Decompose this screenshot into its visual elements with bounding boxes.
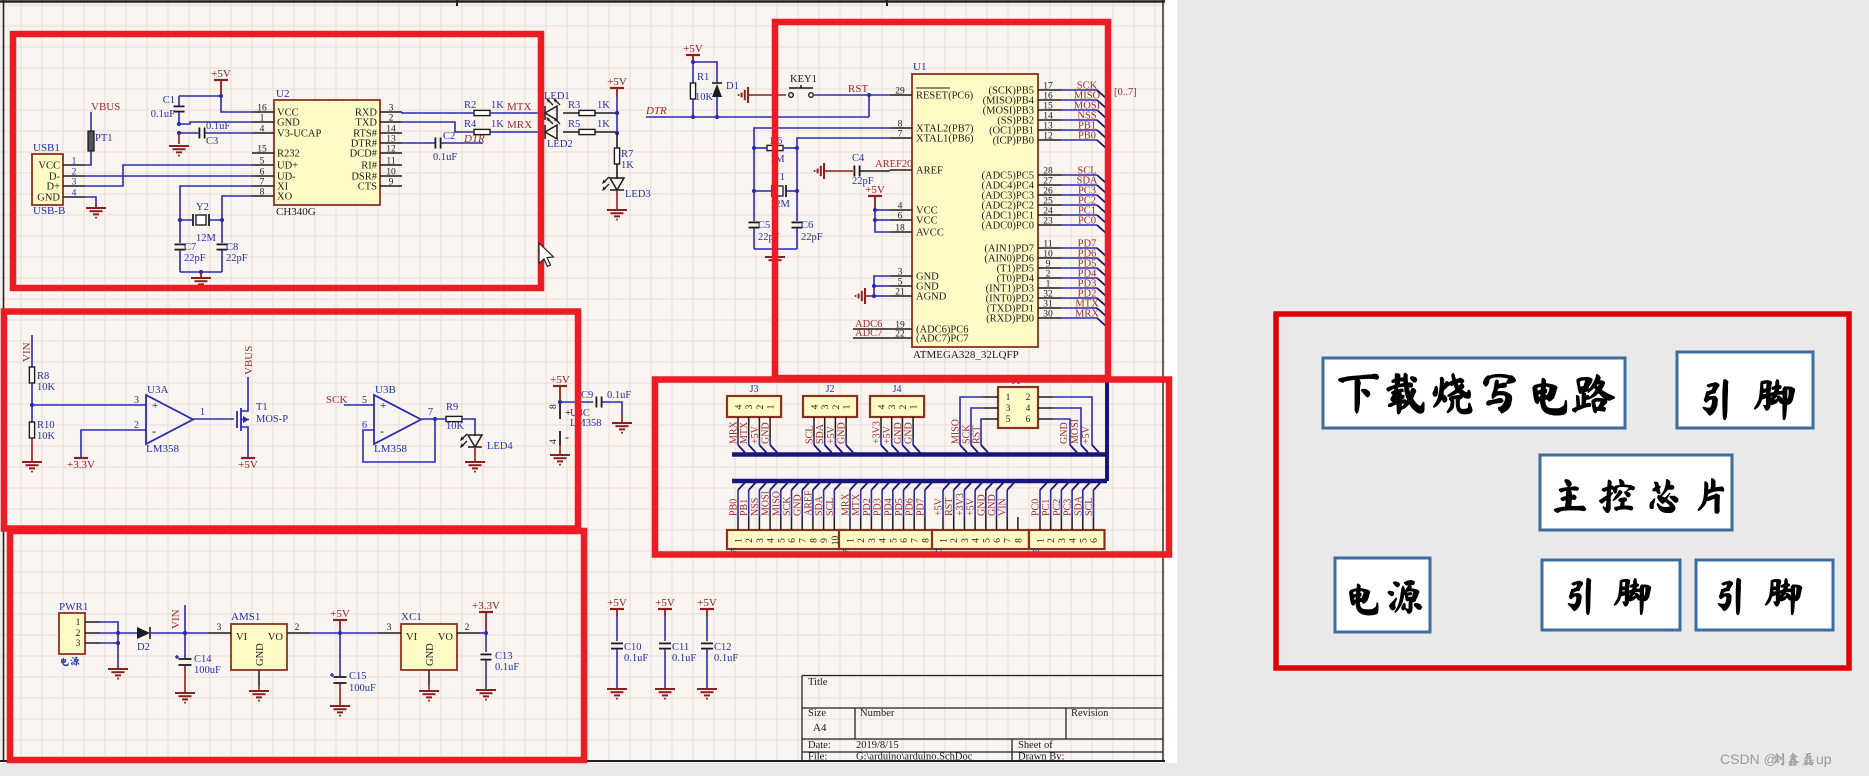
power +5V (C10) — [607, 597, 627, 616]
svg-text:-: - — [380, 424, 384, 438]
svg-text:0.1uF: 0.1uF — [495, 662, 519, 673]
svg-text:DCD#: DCD# — [350, 149, 378, 160]
net label PC2 (J8 pin 3) — [1052, 483, 1069, 518]
svg-text:7: 7 — [799, 538, 809, 543]
svg-text:C12: C12 — [714, 642, 732, 653]
svg-text:7: 7 — [260, 178, 265, 188]
svg-text:3: 3 — [756, 538, 766, 543]
svg-text:MRX: MRX — [1075, 309, 1099, 320]
svg-text:+5V: +5V — [607, 76, 627, 88]
power +5V (C12) — [697, 597, 717, 616]
svg-text:22pF: 22pF — [226, 253, 248, 264]
highlight box download/burn circuit — [13, 34, 541, 288]
svg-text:1K: 1K — [597, 119, 610, 130]
svg-text:C9: C9 — [581, 390, 593, 401]
svg-text:100uF: 100uF — [194, 665, 221, 676]
svg-text:29: 29 — [895, 87, 905, 97]
svg-text:0.1uF: 0.1uF — [607, 390, 631, 401]
wire DTR to RST node — [646, 93, 871, 119]
ground (C12) — [697, 689, 717, 700]
net label PD7 (J6 pin 8) — [915, 483, 932, 518]
net label SCK (U3B input) — [326, 394, 347, 406]
net label +5V (J4 pin 3) — [882, 425, 899, 452]
svg-text:A4: A4 — [813, 722, 827, 734]
svg-text:T1: T1 — [256, 402, 268, 413]
svg-text:0.1uF: 0.1uF — [714, 653, 738, 664]
ground (LED3) — [607, 190, 627, 221]
svg-text:VCC: VCC — [916, 216, 938, 227]
svg-text:+5V: +5V — [655, 597, 675, 609]
svg-text:3: 3 — [888, 404, 898, 409]
resistor R7 1K — [614, 148, 634, 179]
svg-text:6: 6 — [260, 168, 265, 178]
svg-text:1K: 1K — [491, 119, 504, 130]
svg-text:+5V: +5V — [550, 374, 570, 386]
svg-text:5: 5 — [1079, 538, 1089, 543]
net label +5V (J7 pin 4) — [966, 483, 983, 518]
power +3.3V (U3A -input) — [67, 430, 146, 471]
svg-text:RST: RST — [848, 83, 868, 95]
svg-text:14: 14 — [386, 125, 396, 135]
IC U2 CH340G — [252, 88, 402, 218]
svg-text:4: 4 — [72, 189, 77, 199]
net label VBUS (rotated) — [243, 346, 255, 375]
svg-text:5: 5 — [260, 157, 265, 167]
regulator XC1 — [378, 611, 480, 690]
svg-text:Revision: Revision — [1071, 708, 1109, 719]
svg-text:U1: U1 — [913, 61, 926, 73]
net label VIN (J7 pin 7) — [998, 483, 1015, 518]
ground (C14) — [175, 693, 195, 704]
header J8 — [1029, 517, 1105, 558]
wire U2 GND pin1 to C3/C1 node — [177, 122, 252, 135]
crystal Y2 12M — [193, 202, 217, 244]
net label PD5 (J6 pin 6) — [894, 483, 911, 518]
ground (C9) — [612, 423, 632, 434]
net label +5V (J1 right) — [1053, 397, 1099, 453]
net label PC0 (J8 pin 1) — [1031, 483, 1048, 518]
capacitor C7 22pF — [175, 242, 206, 272]
svg-text:2: 2 — [76, 629, 81, 639]
svg-text:MOS-P: MOS-P — [256, 414, 288, 425]
wire XC1 VO to +3.3V / C13 — [480, 631, 488, 652]
svg-text:+5V: +5V — [211, 68, 231, 80]
wire +5V to VCC/AVCC pins — [873, 208, 890, 232]
svg-text:22pF: 22pF — [184, 253, 206, 264]
ground (KEY1, rotated) — [738, 87, 786, 103]
legend box: pins label (top) — [1677, 352, 1813, 428]
svg-text:3: 3 — [898, 268, 903, 278]
svg-text:GND: GND — [37, 193, 60, 204]
svg-text:DTR: DTR — [463, 133, 485, 145]
capacitor C4 22pF — [852, 153, 890, 187]
svg-text:PWR1: PWR1 — [59, 601, 88, 613]
net label NSS (J5 pin 3) — [750, 483, 767, 518]
wire R2 to LED1 — [490, 112, 545, 114]
net label MRX — [507, 119, 532, 131]
svg-text:8: 8 — [921, 538, 931, 543]
net label MRX (J6 pin 1) — [841, 483, 858, 518]
net label RST (J7 pin 2) — [944, 483, 961, 518]
capacitor C13 0.1uF — [481, 651, 520, 689]
svg-text:CSDN @: CSDN @ — [1720, 751, 1778, 767]
svg-text:XTAL1(PB6): XTAL1(PB6) — [916, 134, 974, 145]
svg-text:1: 1 — [76, 618, 81, 628]
net label SCK (J5 pin 6) — [782, 483, 799, 518]
watermark CSDN @liuxinlei-up — [1720, 751, 1832, 767]
svg-text:5: 5 — [1006, 415, 1011, 425]
svg-text:7: 7 — [1004, 538, 1014, 543]
net label PB1 (J5 pin 2) — [739, 483, 756, 518]
svg-text:3: 3 — [217, 623, 222, 633]
ground (PWR1) — [108, 669, 128, 680]
crystal Y1 12M — [752, 172, 799, 221]
svg-text:VBUS: VBUS — [91, 101, 120, 113]
wire VIN to divider — [31, 335, 33, 367]
net label +3V3 (J7 pin 3) — [955, 483, 972, 518]
svg-text:4: 4 — [878, 404, 888, 409]
svg-text:2: 2 — [899, 404, 909, 409]
svg-text:1: 1 — [767, 404, 777, 409]
svg-text:XC1: XC1 — [401, 611, 422, 623]
svg-text:(ADC7)PC7: (ADC7)PC7 — [916, 334, 969, 345]
IC U1 ATMEGA328_32LQFP — [890, 61, 1038, 361]
svg-text:ATMEGA328_32LQFP: ATMEGA328_32LQFP — [913, 349, 1019, 361]
resistor R6 1M — [752, 136, 799, 191]
svg-text:16: 16 — [257, 104, 267, 114]
resistor R9 10K — [421, 402, 475, 436]
svg-text:2: 2 — [832, 404, 842, 409]
svg-text:1: 1 — [735, 538, 745, 543]
net label +3V3 (J4 pin 4) — [872, 421, 889, 452]
svg-text:2: 2 — [1047, 538, 1057, 543]
ground (U3C pin4) — [550, 455, 570, 466]
resistor R3 1K — [563, 100, 617, 116]
ground (C1/C3) — [169, 133, 189, 157]
svg-text:U3B: U3B — [375, 384, 396, 396]
resistor R4 1K — [402, 119, 504, 135]
power +5V (LM358 supply) — [550, 374, 570, 402]
U1 right pins with net labels and bus entries — [981, 81, 1107, 328]
net label PD6 (J6 pin 7) — [905, 483, 922, 518]
svg-text:D1: D1 — [726, 81, 739, 92]
capacitor C8 22pF — [217, 242, 248, 272]
svg-text:4: 4 — [972, 538, 982, 543]
svg-text:J3: J3 — [750, 384, 759, 395]
svg-text:GND: GND — [255, 643, 266, 666]
svg-text:R7: R7 — [621, 149, 633, 160]
svg-text:C4: C4 — [852, 153, 865, 164]
svg-text:2: 2 — [756, 404, 766, 409]
svg-text:10K: 10K — [446, 421, 465, 432]
svg-text:1: 1 — [200, 407, 205, 418]
svg-text:3: 3 — [72, 178, 77, 188]
svg-text:LED4: LED4 — [487, 441, 513, 452]
svg-text:AGND: AGND — [916, 292, 947, 303]
svg-text:AVCC: AVCC — [916, 228, 944, 239]
svg-text:10: 10 — [386, 168, 396, 178]
net label +5V (J2 pin 2) — [826, 425, 843, 452]
svg-text:MRX: MRX — [507, 119, 532, 131]
svg-text:R232: R232 — [277, 149, 300, 160]
svg-text:UD+: UD+ — [277, 161, 298, 172]
LED LED4 — [460, 434, 513, 452]
svg-text:C3: C3 — [206, 136, 218, 147]
wire XTAL2 to crystal — [754, 128, 890, 148]
legend box: download/burn circuit label — [1323, 358, 1625, 428]
net label MRX (J3 pin 4) — [729, 420, 746, 452]
svg-text:4: 4 — [549, 439, 559, 444]
net label PD3 (J6 pin 4) — [873, 483, 890, 518]
svg-text:U2: U2 — [276, 88, 289, 100]
svg-text:2: 2 — [857, 538, 867, 543]
net label VIN (rotated) — [21, 342, 33, 362]
wire SCK to U3B +input — [344, 404, 374, 406]
wire USB D+ to U2 UD+ — [85, 165, 252, 186]
svg-text:15: 15 — [1043, 102, 1053, 112]
svg-text:1: 1 — [940, 538, 950, 543]
ground (C13) — [476, 690, 496, 701]
svg-text:6: 6 — [993, 538, 1003, 543]
svg-text:4: 4 — [260, 125, 265, 135]
svg-text:27: 27 — [1043, 177, 1053, 187]
ground (USB GND pin4) — [85, 197, 106, 219]
resistor R10 10K — [29, 420, 55, 461]
svg-text:6: 6 — [900, 538, 910, 543]
capacitor C3 0.1uF — [179, 121, 252, 147]
svg-text:Drawn By:: Drawn By: — [1018, 752, 1064, 763]
svg-text:VI: VI — [406, 632, 418, 643]
svg-text:2: 2 — [950, 538, 960, 543]
connector PWR1 power jack — [59, 601, 100, 654]
svg-text:D2: D2 — [137, 642, 150, 653]
svg-text:C10: C10 — [624, 642, 642, 653]
svg-text:3: 3 — [134, 395, 139, 406]
ground (R10) — [22, 462, 42, 473]
svg-text:11: 11 — [386, 157, 395, 167]
svg-text:3: 3 — [1058, 538, 1068, 543]
LED LED2 — [545, 117, 573, 150]
capacitor C2 0.1uF (DTR coupling) — [402, 131, 483, 163]
svg-text:VI: VI — [236, 632, 248, 643]
svg-text:9: 9 — [389, 178, 394, 188]
svg-text:[0..7]: [0..7] — [1114, 87, 1137, 98]
svg-text:Date:: Date: — [808, 740, 831, 751]
ground (crystal caps) — [180, 270, 222, 289]
net label RST (J1 left) — [972, 419, 989, 453]
wire USB D- to U2 UD- — [85, 175, 252, 177]
svg-text:4: 4 — [1026, 404, 1031, 414]
svg-text:1: 1 — [910, 404, 920, 409]
op-amp power U3C LM358 pins 8/4 — [549, 400, 602, 455]
svg-text:26: 26 — [1043, 187, 1053, 197]
svg-text:R3: R3 — [568, 100, 580, 111]
capacitor C10 0.1uF — [611, 616, 648, 688]
svg-text:R8: R8 — [37, 371, 49, 382]
svg-text:2019/8/15: 2019/8/15 — [856, 740, 899, 751]
svg-text:C15: C15 — [349, 671, 367, 682]
svg-text:USB-B: USB-B — [33, 205, 65, 217]
svg-text:22pF: 22pF — [801, 232, 823, 243]
svg-text:23: 23 — [1043, 217, 1053, 227]
net label PB0 (J5 pin 1) — [729, 483, 746, 518]
svg-text:File:: File: — [808, 752, 827, 763]
svg-text:+5V: +5V — [238, 459, 258, 471]
net label AREF (J5 pin 8) — [803, 483, 820, 518]
net label MTX (J6 pin 2) — [851, 483, 868, 518]
net label GND (J5 pin 7) — [793, 483, 810, 518]
resistor R8 10K — [29, 367, 55, 422]
svg-text:16: 16 — [1043, 92, 1053, 102]
svg-text:100uF: 100uF — [349, 683, 376, 694]
net label SCL (J2 pin 4) — [805, 426, 822, 453]
svg-text:AMS1: AMS1 — [231, 611, 260, 623]
svg-text:J4: J4 — [893, 384, 902, 395]
power +5V (CH340) — [211, 68, 231, 96]
wire U3B feedback loop — [363, 419, 435, 462]
MOSFET T1 MOS-P — [237, 402, 288, 432]
svg-text:5: 5 — [982, 538, 992, 543]
svg-text:C14: C14 — [194, 654, 212, 665]
net label GND (J7 pin 5) — [976, 483, 993, 518]
svg-text:GND: GND — [425, 643, 436, 666]
svg-text:4: 4 — [1069, 538, 1079, 543]
svg-text:R10: R10 — [37, 420, 55, 431]
legend box: main control chip label — [1540, 455, 1732, 530]
net label VIN (power, rotated) — [170, 609, 182, 629]
net label GND (J3 pin 1) — [761, 422, 778, 452]
svg-text:3: 3 — [868, 538, 878, 543]
svg-text:(ICP)PB0: (ICP)PB0 — [993, 136, 1034, 147]
svg-text:C13: C13 — [495, 651, 513, 662]
net label PC3 (J8 pin 4) — [1063, 483, 1080, 518]
svg-text:V3-UCAP: V3-UCAP — [277, 129, 321, 140]
svg-text:7: 7 — [428, 407, 433, 418]
svg-text:8: 8 — [809, 538, 819, 543]
svg-text:25: 25 — [1043, 197, 1053, 207]
svg-text:1: 1 — [847, 538, 857, 543]
svg-text:3: 3 — [745, 404, 755, 409]
svg-text:0.1uF: 0.1uF — [151, 109, 175, 120]
power +5V (C11) — [655, 597, 675, 616]
svg-text:Y2: Y2 — [196, 202, 209, 213]
net label GND (J4 pin 2) — [893, 422, 910, 452]
svg-text:5: 5 — [898, 278, 903, 288]
schematic sheet background with grid — [0, 0, 1177, 763]
svg-text:2: 2 — [1026, 393, 1031, 403]
highlight box power supply — [10, 531, 584, 760]
svg-text:5: 5 — [362, 395, 367, 406]
bus harness lower — [732, 455, 1107, 481]
ground (C11) — [655, 689, 675, 700]
legend box: power label — [1335, 558, 1430, 632]
svg-text:G:\arduino\arduino.SchDoc: G:\arduino\arduino.SchDoc — [856, 752, 973, 763]
svg-text:13: 13 — [386, 135, 396, 145]
wire KEY1 to RESET pin29 — [813, 94, 890, 96]
svg-text:12: 12 — [1043, 132, 1053, 142]
net label SDA (J8 pin 5) — [1073, 483, 1090, 518]
svg-text:R4: R4 — [464, 119, 477, 130]
net label VBUS — [91, 101, 120, 113]
ground (C15) — [330, 706, 350, 717]
power +5V (reset pullup) — [683, 43, 703, 62]
legend box: pins label (bottom right) — [1696, 560, 1833, 630]
svg-text:7: 7 — [911, 538, 921, 543]
header J1 ISP 2x3 — [983, 376, 1053, 428]
net label ADC6 — [853, 319, 890, 330]
svg-text:XO: XO — [277, 192, 293, 203]
net label GND (J1 right) — [1053, 419, 1077, 453]
net label MTX (J3 pin 3) — [739, 421, 756, 453]
wire XI to crystal/C7 — [178, 186, 252, 243]
svg-text:C2: C2 — [443, 131, 455, 142]
capacitor C11 0.1uF — [659, 616, 696, 688]
svg-text:22: 22 — [895, 330, 905, 340]
ground (AREF, rotated) — [814, 163, 853, 179]
resistor R1 10K — [690, 72, 713, 117]
wire PWR1 pins to D2 — [100, 622, 137, 668]
legend box: pins label (bottom middle) — [1542, 560, 1680, 630]
bus harness upper — [732, 452, 1107, 457]
svg-text:8: 8 — [1014, 538, 1024, 543]
power +5V (T1 source, pointing down) — [238, 432, 258, 471]
svg-text:2: 2 — [1046, 270, 1051, 280]
svg-text:32: 32 — [1043, 290, 1053, 300]
wire T1 drain to VBUS — [247, 377, 249, 406]
svg-text:3: 3 — [821, 404, 831, 409]
diode D2 — [137, 627, 150, 653]
svg-text:5: 5 — [889, 538, 899, 543]
ground (LED4) — [465, 447, 485, 473]
svg-text:1: 1 — [1037, 538, 1047, 543]
net label GND (J4 pin 1) — [904, 422, 921, 452]
svg-text:4: 4 — [811, 404, 821, 409]
highlight box MCU — [775, 22, 1108, 378]
svg-text:CTS: CTS — [358, 182, 377, 193]
svg-text:6: 6 — [788, 538, 798, 543]
wire R4 to LED2 — [490, 131, 545, 133]
net label DTR (at C2) — [463, 133, 485, 145]
svg-text:PB0: PB0 — [1078, 131, 1096, 142]
svg-text:1K: 1K — [491, 100, 504, 111]
net label PD4 (J6 pin 5) — [883, 483, 900, 518]
svg-text:30: 30 — [1043, 310, 1053, 320]
header J2 — [803, 384, 857, 438]
svg-text:+5V: +5V — [697, 597, 717, 609]
svg-text:DTR: DTR — [645, 105, 667, 117]
power +5V (AMS1 out) — [330, 608, 350, 633]
pushbutton KEY1 — [789, 74, 817, 97]
regulator AMS1 — [208, 611, 310, 690]
resistor R5 1K — [563, 119, 617, 135]
svg-text:VO: VO — [268, 632, 284, 643]
svg-text:-: - — [152, 424, 156, 438]
ground (AMS1) — [249, 691, 269, 702]
title block — [802, 676, 1163, 763]
svg-text:4: 4 — [735, 404, 745, 409]
net label MOSI (J1 right) — [1053, 408, 1088, 453]
net label SDA (J2 pin 3) — [815, 423, 832, 452]
svg-text:R5: R5 — [568, 119, 580, 130]
svg-text:0.1uF: 0.1uF — [433, 152, 457, 163]
header J7 — [932, 517, 1029, 558]
svg-text:0.1uF: 0.1uF — [624, 653, 648, 664]
header J4 — [870, 384, 924, 438]
svg-text:17: 17 — [1043, 82, 1053, 92]
svg-text:J2: J2 — [826, 384, 835, 395]
connector PWR1 Chinese label dianyuan — [61, 657, 79, 666]
svg-text:3: 3 — [389, 104, 394, 114]
